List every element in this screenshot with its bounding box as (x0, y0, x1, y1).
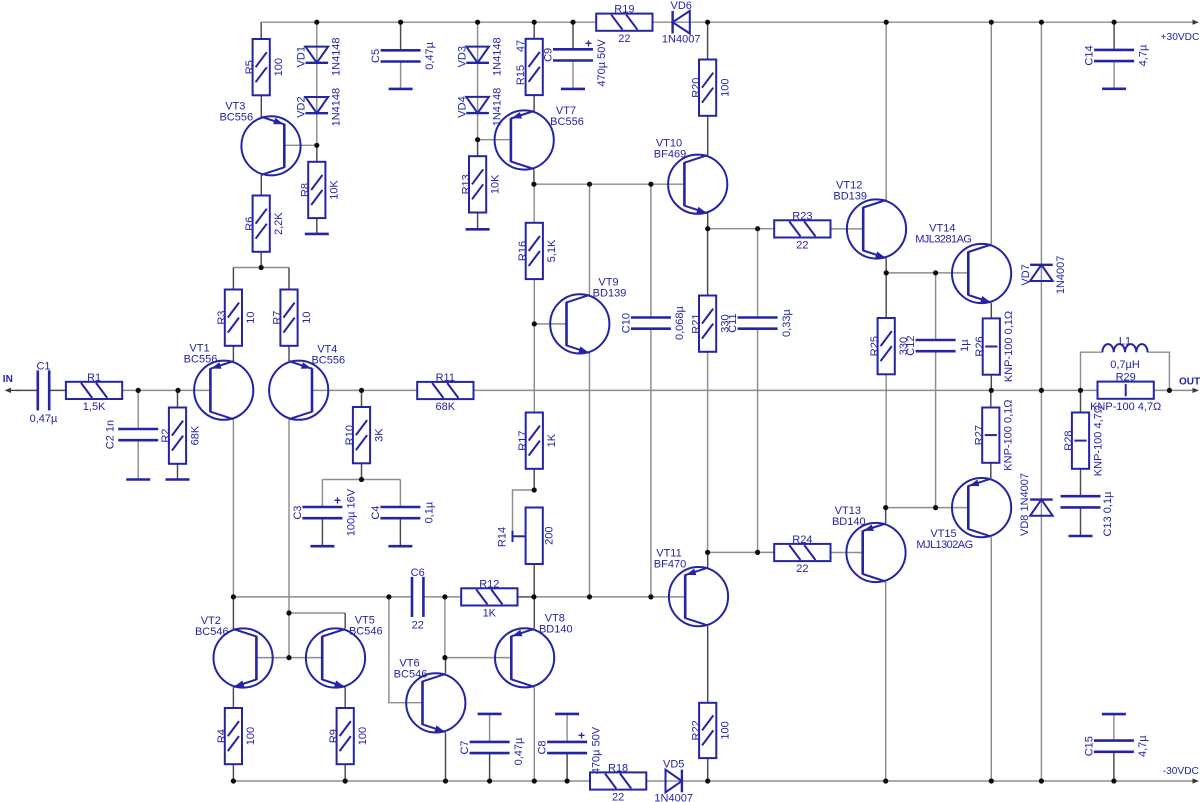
wire R22 to -rail (707, 758, 709, 781)
wire rail to VD3 VD4 chain (477, 22, 479, 140)
junction bottom rail R4 (231, 778, 236, 783)
junction top rail VD1 (314, 20, 319, 25)
svg-text:47: 47 (515, 40, 527, 52)
svg-text:100µ 16V: 100µ 16V (346, 488, 358, 536)
svg-text:R25: R25 (869, 336, 881, 356)
wire VT11 emitter stub (707, 552, 709, 567)
wire VT2 emitter to R4 (232, 687, 234, 708)
wire wiper elbow (513, 490, 535, 531)
wire rail to R20 (707, 22, 709, 59)
wire R22 top (707, 626, 709, 703)
resistor R2 (160, 408, 201, 464)
wire rail to R5 (260, 22, 262, 39)
wire tail node horizontal (233, 267, 289, 269)
junction R21 R24 (705, 550, 710, 555)
svg-text:R11: R11 (436, 372, 455, 384)
svg-text:KNP-100 4,7Ω: KNP-100 4,7Ω (1090, 401, 1161, 413)
diode VD7 (1020, 256, 1067, 295)
svg-text:C5: C5 (370, 49, 382, 63)
svg-text:BD140: BD140 (539, 623, 573, 635)
wire lower net left (233, 596, 412, 598)
terminal OUT arrow (1193, 388, 1200, 393)
svg-text:BC556: BC556 (311, 354, 345, 366)
junction VT2 VT5 base (286, 655, 291, 660)
junction VT4 base (359, 388, 364, 393)
svg-text:C2 1n: C2 1n (105, 420, 117, 449)
wire C4 to ground (399, 518, 401, 546)
wire base node to R8 (316, 145, 318, 162)
wire C5 to ground (400, 62, 402, 89)
resistor R9 (328, 708, 369, 764)
wire C13 to ground (1080, 508, 1082, 536)
junction top rail R15 (532, 20, 537, 25)
wire rail to VD1 VD2 chain (316, 22, 318, 145)
svg-text:100: 100 (245, 727, 257, 745)
ground under C3 (310, 545, 334, 548)
svg-text:KNP-100 4,7Ω: KNP-100 4,7Ω (1092, 405, 1104, 476)
junction R1 R2 (175, 388, 180, 393)
wire R14 bottom to bias net (533, 564, 535, 597)
wire R7 to VT4 emitter (288, 346, 290, 361)
wire R27 top (990, 390, 992, 407)
resistor R23 (774, 210, 830, 251)
svg-text:R17: R17 (517, 431, 529, 451)
junction VT9 base (532, 321, 537, 326)
junction top rail C9 (570, 20, 575, 25)
transistor VT2 BC546 (195, 615, 273, 688)
wire L1 to out node (1148, 352, 1170, 390)
wire C8 to -rail (566, 753, 568, 781)
resistor R7 (272, 290, 313, 346)
capacitor C9 (543, 37, 609, 87)
wire R8 to ground (316, 218, 318, 234)
wire R3 to VT1 emitter (232, 346, 234, 361)
ground under C13 (1069, 535, 1093, 538)
svg-text:4,7µ: 4,7µ (1137, 44, 1149, 66)
junction bottom rail C15 (1111, 778, 1116, 783)
svg-text:1N4007: 1N4007 (654, 792, 693, 802)
ground under C2 (126, 478, 150, 481)
junction R1 C2 (136, 388, 141, 393)
svg-text:R10: R10 (344, 425, 356, 445)
wire VT7col to R16 (533, 184, 535, 223)
svg-text:C14: C14 (1084, 45, 1096, 65)
wire VT4 collector chain (288, 420, 290, 658)
resistor R10 (344, 407, 385, 463)
resistor R26 (974, 311, 1015, 382)
capacitor C5 (370, 41, 436, 69)
terminal -30VDC arrow (1193, 778, 1200, 783)
wire VT8 collector down (533, 687, 535, 781)
wire VT13 collector down (885, 582, 887, 781)
svg-text:BF469: BF469 (654, 149, 686, 161)
svg-text:R28: R28 (1063, 431, 1075, 451)
wire R12 to VT8 node (518, 596, 534, 598)
wire R4 to -rail (232, 764, 234, 781)
svg-text:+30VDC: +30VDC (1161, 32, 1200, 43)
svg-text:3K: 3K (373, 428, 385, 442)
wire R25 top (885, 273, 887, 318)
svg-text:0,47µ: 0,47µ (30, 413, 58, 425)
svg-text:1K: 1K (483, 608, 497, 620)
junction R10 node (359, 477, 364, 482)
wire VT6 emitter down (445, 733, 447, 782)
diode VD3 (456, 37, 503, 76)
wire driver emitter net upper (886, 272, 968, 274)
diode VD6 (662, 0, 701, 45)
svg-text:R21: R21 (690, 314, 702, 334)
svg-text:10K: 10K (489, 174, 501, 194)
svg-text:R26: R26 (974, 336, 986, 356)
svg-text:0,47µ: 0,47µ (424, 41, 436, 69)
transistor VT1 BC556 (184, 343, 254, 420)
svg-text:0,7µH: 0,7µH (1110, 359, 1140, 371)
wire VT10 emitter down (707, 213, 709, 229)
wire C12 top (935, 273, 937, 340)
wire R20 to VT10 collector (707, 116, 709, 155)
resistor R19 (596, 4, 652, 45)
svg-text:R13: R13 (460, 174, 472, 194)
svg-text:68K: 68K (189, 425, 201, 445)
transistor VT15 MJL1302AG (916, 478, 1011, 551)
resistor R29 (1090, 372, 1161, 413)
svg-text:VD2: VD2 (296, 96, 308, 117)
junction C12 bottom (933, 505, 938, 510)
resistor R3 (216, 290, 257, 346)
wire R2 to ground (177, 464, 179, 480)
resistor R27 (974, 399, 1015, 470)
ground under C9 (561, 88, 585, 91)
ground under R2 (166, 478, 190, 481)
svg-text:MJL3281AG: MJL3281AG (915, 233, 971, 245)
wire VT12 collector up (885, 22, 887, 199)
junction bottom rail VT6 (443, 778, 448, 783)
svg-text:VD4: VD4 (456, 96, 468, 117)
wire VT8 emitter up (533, 597, 535, 628)
svg-text:MJL1302AG: MJL1302AG (916, 539, 972, 551)
svg-text:0,1µ: 0,1µ (424, 501, 436, 523)
svg-text:C6: C6 (411, 567, 425, 579)
svg-text:VD8 1N4007: VD8 1N4007 (1019, 473, 1031, 536)
wire -30V rail left segment (233, 780, 590, 782)
wire C10 top (650, 184, 652, 317)
wire driver emitter net lower (886, 507, 968, 509)
junction VT11 base (648, 594, 653, 599)
capacitor C1 (30, 360, 58, 425)
wire R2 top stub (177, 390, 179, 407)
transistor VT10 BF469 (654, 138, 728, 214)
wire bias to R24 net (708, 551, 775, 553)
svg-text:R20: R20 (690, 78, 702, 98)
svg-text:10: 10 (245, 311, 257, 323)
svg-text:470µ 50V: 470µ 50V (596, 39, 608, 87)
wire down to C4 (399, 480, 401, 508)
svg-text:BC546: BC546 (349, 626, 383, 638)
wire tail to R7 (288, 268, 290, 290)
svg-text:10: 10 (301, 311, 313, 323)
wire VT12 emitter down (885, 259, 887, 273)
wire R26 to output (990, 375, 992, 391)
resistor R22 (690, 703, 731, 758)
wire VT10emitter to R23 net (708, 228, 775, 230)
svg-text:0,068µ: 0,068µ (674, 306, 686, 341)
svg-text:1,5K: 1,5K (83, 401, 106, 413)
wire VT1 collector chain (232, 420, 234, 597)
svg-text:1K: 1K (546, 433, 558, 447)
svg-text:R1: R1 (87, 372, 101, 384)
wire VT2 VT5 base link (256, 657, 322, 659)
wire C1 to R1 (49, 389, 66, 391)
diode VD5 (654, 759, 693, 802)
wire IN to C1 (16, 389, 38, 391)
wire C9 to ground (572, 61, 574, 89)
svg-text:4,7µ: 4,7µ (1137, 735, 1149, 757)
wire R21 top (707, 229, 709, 296)
svg-text:BC556: BC556 (219, 111, 253, 123)
junction bottom rail R22 (705, 778, 710, 783)
junction VAS net C10 (648, 182, 653, 187)
svg-text:C10: C10 (620, 313, 632, 333)
svg-text:22: 22 (412, 619, 424, 631)
transistor VT12 BD139 (833, 179, 906, 258)
svg-text:0,33µ: 0,33µ (781, 309, 793, 337)
ground under R13 (466, 228, 490, 231)
wire C14 to ground (1113, 61, 1115, 89)
resistor R12 (461, 578, 517, 619)
svg-text:C8: C8 (537, 740, 549, 754)
capacitor C14 (1084, 44, 1150, 66)
resistor R4 (216, 708, 257, 764)
svg-text:R27: R27 (974, 425, 986, 445)
junction VT10 emitter (705, 226, 710, 231)
svg-text:22: 22 (796, 563, 808, 575)
svg-text:C13 0,1µ: C13 0,1µ (1102, 491, 1114, 537)
diode VD4 (456, 88, 503, 127)
ground under C5 (389, 88, 413, 91)
resistor R5 (244, 39, 285, 95)
wire C3 to ground (321, 518, 323, 546)
wire R17 to wiper node (533, 469, 535, 490)
svg-text:C1: C1 (36, 360, 50, 372)
svg-text:C11: C11 (727, 313, 739, 332)
svg-text:IN: IN (3, 374, 13, 385)
svg-text:BD140: BD140 (832, 516, 866, 528)
wire +30V rail right segment (653, 21, 1198, 23)
junction R26 output (989, 388, 994, 393)
wire R28 top (1080, 390, 1082, 412)
svg-text:KNP-100 0,1Ω: KNP-100 0,1Ω (1003, 311, 1015, 382)
wire R6 to tail node (260, 252, 262, 268)
svg-text:VD6: VD6 (670, 0, 691, 12)
wire R13 to ground (477, 213, 479, 230)
wire VT15 collector down (990, 537, 992, 781)
capacitor C6 (411, 567, 425, 632)
wire +30V rail left segment (261, 21, 596, 23)
wire VT5 emitter to R9 (344, 687, 346, 708)
svg-text:22: 22 (612, 792, 624, 802)
svg-text:68K: 68K (436, 401, 456, 413)
wire R15 to VT7 emitter (533, 95, 535, 111)
svg-text:1N4148: 1N4148 (331, 37, 343, 76)
transistor VT5 BC546 (306, 615, 383, 688)
capacitor C10 (620, 306, 686, 341)
wire VT5 collector stub (344, 613, 346, 628)
resistor R25 (869, 318, 910, 374)
transistor VT7 BC556 (495, 105, 584, 170)
svg-text:R2: R2 (160, 429, 172, 443)
wire VAS base net (534, 183, 685, 185)
diode VD8 (1030, 500, 1053, 516)
wire VT6 base elbow (389, 597, 423, 703)
transistor VT6 BC546 (394, 657, 466, 732)
junction bottom rail VT13 (883, 778, 888, 783)
transistor VT13 BD140 (832, 505, 906, 582)
svg-text:OUT: OUT (1179, 376, 1200, 387)
svg-text:KNP-100 0,1Ω: KNP-100 0,1Ω (1003, 399, 1015, 470)
capacitor C2 (105, 420, 159, 449)
transistor VT14 MJL3281AG (915, 222, 1011, 303)
svg-text:R16: R16 (517, 241, 529, 261)
ground above C8 (555, 713, 579, 716)
resistor R20 (690, 60, 731, 116)
svg-text:R15: R15 (515, 65, 527, 85)
svg-text:R3: R3 (216, 311, 228, 325)
wire R28 to C13 (1080, 469, 1082, 496)
resistor R17 (517, 413, 558, 469)
wire VT6 collector up (445, 658, 447, 674)
wire VT9 base lead (534, 323, 566, 325)
capacitor C8 (537, 726, 603, 774)
wire R16 to R17 chain (533, 279, 535, 412)
wire C10 bottom chain (650, 329, 652, 597)
resistor R16 (517, 223, 558, 279)
wire base node to R13 (477, 140, 479, 157)
junction VT9 emitter bias (587, 594, 592, 599)
svg-text:100: 100 (357, 727, 369, 745)
wire C11 bottom chain (757, 329, 759, 552)
junction L1 R28 output (1078, 388, 1083, 393)
transistor VT3 BC556 (219, 100, 300, 175)
junction C6 R12 (442, 594, 447, 599)
resistor R11 (417, 372, 473, 413)
svg-text:R24: R24 (792, 534, 812, 546)
svg-text:22: 22 (618, 33, 630, 45)
wire VT3 base lead (284, 144, 317, 146)
svg-text:R6: R6 (244, 217, 256, 231)
wire C6 to R12 node (423, 596, 461, 598)
svg-text:R22: R22 (690, 720, 702, 740)
wire VT3 collector to R6 (260, 175, 262, 196)
wire -30V rail right segment (647, 780, 1197, 782)
wire rail to VD7 output (1040, 22, 1042, 390)
junction C12 top (933, 270, 938, 275)
wire C6R12 node down (444, 597, 446, 658)
svg-text:1N4007: 1N4007 (662, 34, 701, 46)
svg-text:C7: C7 (459, 740, 471, 754)
wire C3 C4 horizontal (322, 479, 400, 481)
capacitor C4 (370, 501, 436, 523)
transistor VT8 BD140 (495, 612, 573, 687)
junction bottom rail VD8 (1039, 778, 1044, 783)
wire R5 to VT3 emitter (260, 95, 262, 117)
svg-text:1N4148: 1N4148 (491, 37, 503, 76)
svg-text:200: 200 (544, 527, 556, 545)
potentiometer R14 wiper (513, 531, 526, 542)
wire VT13 emitter up (885, 508, 887, 523)
wire VT4 base to R11 (312, 389, 417, 391)
svg-text:100: 100 (273, 58, 285, 76)
svg-text:C3: C3 (292, 506, 304, 520)
junction top rail VT12 (884, 20, 889, 25)
svg-text:C15: C15 (1083, 736, 1095, 756)
junction bottom rail R9 (343, 778, 348, 783)
capacitor C7 (459, 737, 525, 765)
svg-text:BC556: BC556 (550, 116, 584, 128)
wire R21 bottom chain (707, 352, 709, 553)
junction C11 bottom (755, 550, 760, 555)
svg-text:+: + (585, 37, 592, 51)
wire VT9 emitter chain (589, 353, 591, 597)
transistor VT9 BD139 (550, 276, 626, 353)
junction VT12 emitter (884, 270, 889, 275)
wire VT7 collector down (533, 169, 535, 184)
capacitor C13 (1061, 491, 1115, 537)
svg-text:R4: R4 (216, 729, 228, 743)
junction VT8 base (442, 655, 447, 660)
wire VT14 emitter to R26 (990, 303, 992, 318)
svg-text:R29: R29 (1116, 372, 1136, 384)
wire tail to R3 (232, 268, 234, 290)
svg-text:BC556: BC556 (184, 354, 218, 366)
junction top rail VD3 (475, 20, 480, 25)
wire C2 to ground (137, 440, 139, 479)
svg-text:BC546: BC546 (195, 626, 229, 638)
resistor R13 (460, 156, 501, 212)
svg-text:1N4148: 1N4148 (331, 88, 343, 127)
wire R10 top (361, 390, 363, 407)
wire bias net right (534, 596, 685, 598)
wire R27 to VT15 emitter (990, 463, 992, 478)
wire L1 branch (1081, 352, 1103, 390)
transistor VT11 BF470 (654, 548, 728, 627)
wire rail to C5 (400, 22, 402, 50)
svg-text:BF470: BF470 (654, 559, 686, 571)
inductor L1 (1102, 336, 1147, 372)
resistor R14 (526, 508, 543, 565)
junction VT1 collector bias (231, 594, 236, 599)
svg-text:5,1K: 5,1K (546, 239, 558, 262)
junction bottom rail VT15 (989, 778, 994, 783)
resistor R21 (690, 296, 731, 352)
svg-text:C4: C4 (370, 506, 382, 520)
junction bottom rail C8 (565, 778, 570, 783)
svg-text:C12: C12 (905, 336, 917, 356)
wire down to C3 (321, 480, 323, 508)
junction top rail VD7 (1039, 20, 1044, 25)
svg-text:C9: C9 (543, 48, 555, 62)
junction VT3 base (314, 143, 319, 148)
wire R10 to C3 C4 node (361, 463, 363, 480)
svg-text:L1: L1 (1119, 336, 1131, 348)
resistor R24 (774, 534, 830, 575)
ground under C4 (388, 545, 412, 548)
capacitor C3 (292, 488, 358, 536)
wire VT7 base lead (478, 139, 511, 141)
svg-text:R5: R5 (244, 60, 256, 74)
svg-text:1µ: 1µ (959, 339, 971, 352)
svg-text:22: 22 (796, 240, 808, 252)
svg-text:470µ 50V: 470µ 50V (590, 726, 602, 774)
